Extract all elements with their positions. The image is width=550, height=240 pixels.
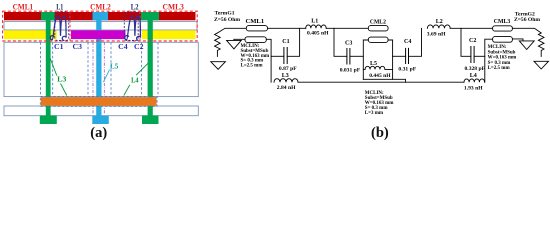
svg-text:CML2: CML2	[90, 1, 111, 11]
ground TermG1 triangle	[211, 62, 226, 70]
svg-text:CML2: CML2	[370, 19, 386, 25]
wires C3 right to port riser	[350, 55, 363, 57]
inductor L3 coil on bottom wire	[274, 79, 298, 83]
red dashed separator CML2|CML3	[139, 11, 141, 41]
wire: L2 to CML3	[450, 27, 492, 29]
svg-text:L5: L5	[110, 61, 119, 70]
svg-text:L=2.5 mm: L=2.5 mm	[488, 66, 511, 71]
magenta strip (over cyan via)	[71, 30, 126, 39]
svg-text:Z=56 Ohm: Z=56 Ohm	[214, 17, 240, 23]
capacitor C4 plates	[405, 48, 407, 63]
top conductor bar (dark red)	[4, 12, 196, 20]
capacitor C3 plates	[346, 49, 348, 65]
lower dashed vertical guides (blue) around green via 1	[40, 42, 42, 96]
blue dashed around cyan via	[87, 42, 89, 96]
svg-text:CML3: CML3	[494, 19, 511, 25]
capacitor C1 plates	[283, 48, 285, 64]
yellow strip right	[142, 30, 196, 39]
wire: L1 to CML2	[326, 27, 368, 29]
riser rail down to C2 at x461	[461, 28, 471, 56]
blue dashed box around L1 coil	[55, 12, 69, 41]
C2 right wire to port riser	[474, 55, 485, 57]
svg-text:C1: C1	[282, 39, 289, 45]
CML2 bottom strip box	[368, 37, 388, 42]
svg-text:L2: L2	[131, 1, 139, 11]
red dashed outline (upper assembly)	[3, 11, 198, 41]
bottom dielectric rect	[4, 106, 198, 116]
svg-text:1.93 nH: 1.93 nH	[464, 85, 483, 91]
via feet	[40, 115, 57, 124]
svg-text:L1: L1	[311, 18, 318, 24]
svg-text:L=2.5 mm: L=2.5 mm	[241, 64, 264, 69]
inductor L4 coil on long wire	[464, 79, 485, 82]
wire: CML1 bottom port right, riser down	[266, 39, 271, 82]
yellow strip left	[4, 30, 57, 39]
svg-text:CML1: CML1	[246, 19, 265, 25]
top via pads (wide blocks in top bar)	[41, 12, 55, 20]
svg-text:CML1: CML1	[13, 1, 34, 11]
coil L2	[125, 15, 141, 40]
purple dash-dot beside cyan via	[92, 42, 94, 113]
svg-text:0.328 pF: 0.328 pF	[465, 66, 486, 72]
ground TermG2 triangle	[534, 61, 549, 69]
orange ground strip (over vias)	[41, 97, 157, 106]
svg-text:C4: C4	[118, 42, 128, 51]
CML1 top strip box	[246, 26, 267, 31]
long bottom wire L3 to L4	[298, 81, 464, 83]
svg-text:L4: L4	[470, 73, 477, 79]
svg-text:L3: L3	[282, 73, 289, 79]
svg-text:3.69 nH: 3.69 nH	[427, 32, 446, 38]
green via 2 over yellow	[148, 30, 153, 39]
wires around C4	[393, 55, 406, 57]
inductor L1 coil	[306, 25, 327, 28]
via green 2 (narrow bar)	[148, 20, 153, 116]
wires around C1	[271, 55, 284, 57]
capacitor C2 plates	[470, 47, 472, 63]
dashed outline around orange strip	[40, 96, 157, 106]
svg-text:2.84 nH: 2.84 nH	[277, 85, 296, 91]
svg-text:C4: C4	[404, 39, 411, 45]
resistor TermG1 zigzag	[215, 33, 221, 56]
svg-text:L2: L2	[436, 19, 443, 25]
substrate box (big)	[4, 42, 198, 96]
red dashed separator CML1|CML2	[69, 11, 71, 41]
via cyan (narrow bar)	[96, 20, 101, 116]
svg-text:L3: L3	[57, 74, 67, 83]
svg-text:L4: L4	[131, 75, 139, 84]
inductor L2 coil	[427, 25, 450, 28]
svg-text:L1: L1	[56, 1, 63, 11]
ground CML1 port3: wire + triangle	[234, 39, 245, 40]
wire CML3 to TermG2 + corner	[512, 28, 541, 33]
CML2 right port riser	[388, 40, 393, 79]
svg-text:0.87 pF: 0.87 pF	[279, 66, 297, 72]
riser rail to C3 at x334	[334, 28, 347, 56]
CML2 left port riser	[363, 40, 368, 79]
svg-text:C2: C2	[469, 38, 476, 44]
svg-text:0.031 pF: 0.031 pF	[340, 68, 361, 74]
svg-text:(a): (a)	[90, 125, 107, 141]
CML2 top strip box	[368, 26, 388, 31]
inductor L5 coil with stubs	[363, 66, 392, 69]
svg-text:C1: C1	[54, 42, 64, 51]
wire: CML1 top to L1	[268, 27, 306, 29]
CML3 bottom strip box	[493, 37, 513, 43]
label L3 + arrows	[50, 59, 57, 76]
CML3 left port riser (down to L4)	[485, 39, 493, 82]
svg-text:Z=56 Ohm: Z=56 Ohm	[514, 17, 540, 23]
CML3 top strip box	[493, 26, 513, 31]
svg-text:(b): (b)	[371, 125, 389, 141]
green via 1 over yellow	[46, 30, 51, 39]
svg-text:0.405 nH: 0.405 nH	[307, 31, 329, 37]
svg-text:L=3 mm: L=3 mm	[365, 111, 384, 116]
label L4 + arrows	[136, 63, 148, 75]
blue dashed box around L2 coil	[124, 12, 138, 41]
svg-text:C3: C3	[73, 42, 83, 51]
via green 1 (narrow bar)	[46, 20, 51, 116]
blue dashed around green via 2	[141, 42, 143, 96]
coil L1 (blue bond-wire inductor)	[50, 15, 66, 40]
resistor TermG2 zigzag	[538, 33, 544, 56]
ground CML3 port: wire + triangle	[512, 39, 523, 41]
CML1 bottom strip box	[245, 37, 266, 43]
wire top rail left + corner to resistor	[217, 28, 246, 33]
svg-text:0.445 nH: 0.445 nH	[369, 73, 391, 79]
dielectric layer 1 (outlined white rect)	[4, 22, 197, 30]
svg-text:CML3: CML3	[163, 1, 184, 11]
svg-text:C2: C2	[134, 42, 144, 51]
svg-text:C3: C3	[345, 41, 352, 47]
svg-text:TermG1: TermG1	[215, 10, 235, 16]
svg-text:0.31 pF: 0.31 pF	[398, 67, 416, 73]
L5 box bottom wire + drop to long wire	[363, 79, 405, 82]
